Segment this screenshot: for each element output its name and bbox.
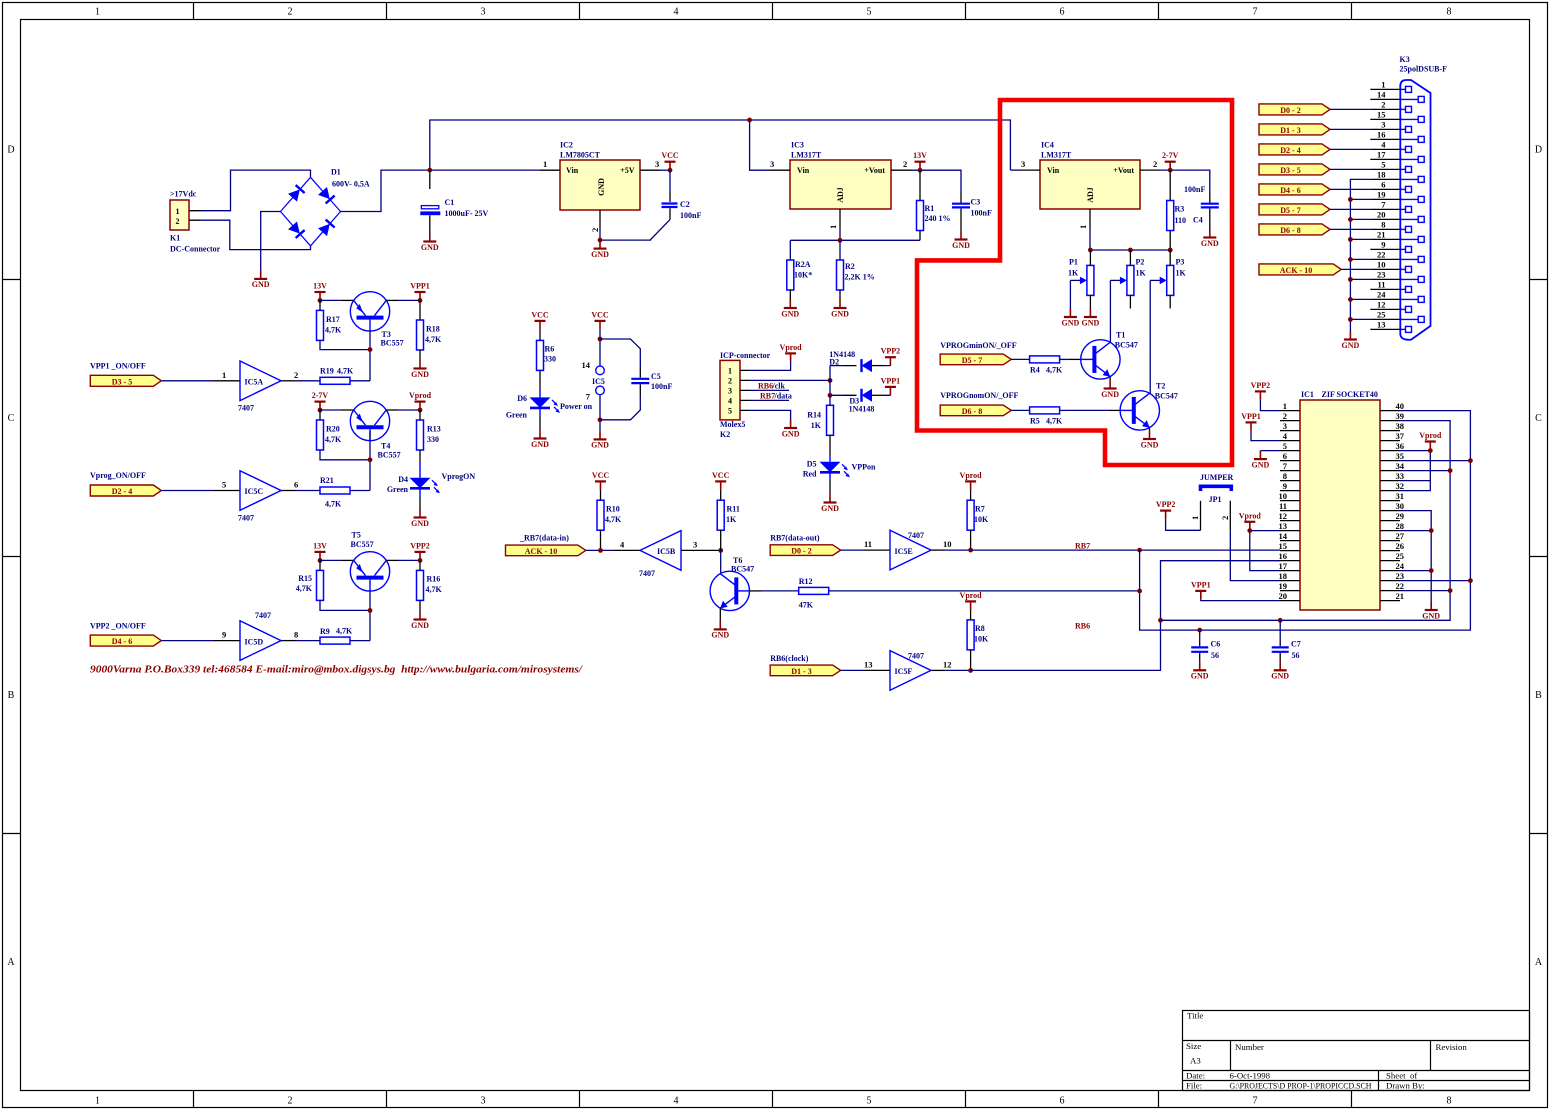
svg-text:7407: 7407: [238, 404, 254, 413]
resistor R6: [537, 329, 557, 390]
svg-text:C: C: [8, 413, 15, 424]
svg-text:20: 20: [1377, 210, 1386, 220]
wire 13V to T5 emitter: [320, 559, 342, 561]
svg-text:DC-Connector: DC-Connector: [170, 245, 221, 254]
ground T6: [711, 621, 729, 640]
svg-text:ADJ: ADJ: [836, 187, 845, 203]
svg-text:2: 2: [728, 376, 732, 385]
svg-text:VPP1 _ON/OFF: VPP1 _ON/OFF: [90, 361, 146, 370]
wire ACK flag to IC5B: [586, 549, 614, 551]
svg-text:27: 27: [1396, 531, 1405, 541]
svg-text:1: 1: [1078, 225, 1088, 229]
svg-text:4,7K: 4,7K: [325, 326, 342, 335]
wire IC4 in: [1010, 169, 1020, 171]
svg-text:IC1: IC1: [1301, 390, 1314, 399]
wire T3 base node: [320, 331, 370, 381]
junction D2 node: [828, 378, 833, 383]
svg-text:R18: R18: [426, 325, 440, 334]
svg-text:5: 5: [867, 7, 872, 18]
svg-text:D: D: [1535, 145, 1542, 156]
svg-text:D2 - 4: D2 - 4: [1280, 146, 1300, 155]
svg-text:2-7V: 2-7V: [312, 391, 329, 400]
wire flag D0-2 to IC5E: [841, 549, 864, 551]
svg-text:D2 - 4: D2 - 4: [112, 487, 132, 496]
SECTION A: power input: [170, 118, 1010, 290]
svg-text:5: 5: [1381, 160, 1385, 170]
junction gnd bus pin21: [1348, 237, 1353, 242]
svg-text:10K: 10K: [974, 515, 989, 524]
junction pin24 gnd: [1429, 568, 1434, 573]
svg-text:56: 56: [1292, 651, 1300, 660]
svg-text:A: A: [1535, 957, 1543, 968]
svg-text:Number: Number: [1235, 1042, 1264, 1052]
junction pin35 RB7: [1468, 458, 1473, 463]
connector K1 DC-Connector: [170, 190, 221, 254]
svg-text:4,7K: 4,7K: [325, 500, 342, 509]
wire VPP2 to JP1 pin1: [1166, 519, 1201, 530]
svg-text:4,7K: 4,7K: [605, 515, 622, 524]
svg-text:VPP1: VPP1: [881, 376, 901, 385]
svg-text:20: 20: [1279, 591, 1288, 601]
wire ACK-10 to pin10: [1341, 268, 1370, 270]
svg-text:1: 1: [176, 207, 180, 216]
power 2-7V T4: [312, 391, 329, 410]
junction pin23 RB7: [1468, 578, 1473, 583]
svg-text:15: 15: [1279, 541, 1288, 551]
svg-text:12: 12: [1279, 511, 1288, 521]
svg-text:21: 21: [1377, 230, 1386, 240]
svg-text:8: 8: [1447, 1096, 1452, 1107]
svg-text:3: 3: [1021, 159, 1025, 169]
svg-text:R2: R2: [845, 262, 855, 271]
svg-text:4: 4: [674, 7, 679, 18]
junction VPP2 R16: [418, 558, 423, 563]
svg-text:Molex5: Molex5: [720, 420, 745, 429]
transistor T5 BC557: [350, 531, 389, 592]
junction pin22 RB6: [1448, 588, 1453, 593]
node flag D5-7 mid: [940, 354, 1011, 365]
wire pin22 to RB6 leg: [1400, 590, 1450, 592]
wire flag D4-6 to IC5D: [161, 640, 214, 642]
svg-text:K2: K2: [720, 430, 730, 439]
svg-text:ADJ: ADJ: [1086, 187, 1095, 203]
resistor R14: [807, 395, 833, 455]
resistor R21: [320, 476, 350, 509]
wire T1 emitter to gnd: [1109, 377, 1111, 380]
junction pin28 gnd: [1429, 528, 1434, 533]
svg-text:9: 9: [222, 630, 226, 640]
svg-text:R8: R8: [975, 624, 985, 633]
svg-text:8: 8: [1447, 7, 1452, 18]
svg-text:18: 18: [1279, 571, 1288, 581]
svg-text:Vprod: Vprod: [1419, 431, 1442, 440]
svg-text:Vin: Vin: [1047, 166, 1060, 175]
svg-text:R5: R5: [1030, 417, 1040, 426]
svg-text:13: 13: [1279, 521, 1288, 531]
svg-text:Vprod: Vprod: [960, 471, 983, 480]
svg-text:R14: R14: [807, 411, 821, 420]
svg-text:26: 26: [1396, 541, 1405, 551]
ground K2: [782, 420, 800, 439]
capacitor C4: [1184, 185, 1219, 229]
op-amp IC5E buffer 7407: [864, 530, 952, 570]
wire T6 emitter to gnd: [719, 608, 721, 621]
svg-text:13V: 13V: [913, 151, 927, 160]
SECTION D: buffers bottom: [506, 310, 1281, 690]
svg-text:File:: File:: [1186, 1080, 1202, 1090]
resistor R15: [296, 560, 324, 600]
svg-text:8: 8: [1283, 471, 1287, 481]
svg-text:RB7: RB7: [1075, 541, 1090, 550]
svg-text:D4 - 6: D4 - 6: [1280, 186, 1300, 195]
ground bridge: [252, 270, 270, 289]
svg-text:11: 11: [1377, 280, 1385, 290]
wire flag D2-4 to IC5C: [161, 490, 214, 492]
svg-text:25polDSUB-F: 25polDSUB-F: [1400, 65, 1448, 74]
svg-text:10: 10: [943, 539, 952, 549]
wire IC5D out: [280, 640, 296, 642]
power Vprod R7: [960, 471, 983, 490]
svg-text:4,7K: 4,7K: [336, 627, 353, 636]
svg-text:C3: C3: [971, 198, 981, 207]
wire R5 to T2 base: [1060, 409, 1110, 411]
svg-text:2-7V: 2-7V: [1162, 151, 1179, 160]
svg-text:C7: C7: [1291, 640, 1301, 649]
svg-text:100nF: 100nF: [680, 211, 701, 220]
power VPP2 JP1: [1156, 500, 1176, 519]
resistor R19: [320, 367, 354, 385]
op-amp IC4 LM317T regulator: [1020, 141, 1160, 230]
svg-text:100nF: 100nF: [971, 209, 992, 218]
svg-text:2,2K 1%: 2,2K 1%: [845, 273, 875, 282]
junction IC5 vcc: [598, 337, 603, 342]
svg-text:18: 18: [1377, 170, 1386, 180]
SECTION C: transistor switches: [90, 282, 475, 661]
junction Vprod pin36: [1428, 448, 1433, 453]
op-amp IC5D buffer 7407: [222, 611, 298, 660]
svg-text:+Vout: +Vout: [1113, 166, 1134, 175]
svg-text:D1: D1: [331, 168, 341, 177]
wire IC3 out node: [911, 170, 961, 192]
svg-text:1: 1: [1190, 516, 1200, 520]
wire IC2 pin2: [599, 228, 601, 240]
SECTION G: ZIF: [1137, 381, 1473, 681]
svg-text:2: 2: [176, 217, 180, 226]
svg-text:VPP2: VPP2: [410, 541, 430, 550]
connector K2 ICP Molex5: [720, 351, 771, 439]
svg-text:BC557: BC557: [351, 540, 374, 549]
junction 13V R15: [318, 558, 323, 563]
ground D4: [411, 509, 429, 528]
junction IC4 out: [1168, 168, 1173, 173]
resistor R17: [317, 300, 343, 340]
svg-text:2: 2: [1153, 159, 1157, 169]
svg-text:IC5F: IC5F: [895, 667, 913, 676]
svg-text:D6 - 8: D6 - 8: [962, 407, 982, 416]
svg-text:13: 13: [864, 660, 873, 670]
resistor R1: [917, 170, 951, 240]
svg-text:Green: Green: [387, 485, 409, 494]
junction IC2 gnd: [598, 238, 603, 243]
svg-text:7407: 7407: [255, 611, 271, 620]
junction T3 base: [368, 347, 373, 352]
svg-text:25: 25: [1396, 551, 1405, 561]
wire VCC to IC5 pin14: [599, 329, 601, 366]
svg-text:2: 2: [1220, 516, 1230, 520]
svg-text:7407: 7407: [639, 569, 655, 578]
power Vprod T4: [409, 391, 432, 410]
junction IC3 rail: [747, 118, 752, 123]
svg-text:RB7: RB7: [760, 392, 775, 401]
resistor R20: [317, 410, 343, 450]
junction C6: [1197, 628, 1202, 633]
svg-text:A: A: [7, 957, 15, 968]
node flag ACK-10: [1259, 264, 1341, 275]
power Vprod pin36: [1419, 431, 1442, 450]
svg-text:Title: Title: [1187, 1011, 1203, 1021]
svg-text:7: 7: [1253, 7, 1258, 18]
svg-text:24: 24: [1377, 290, 1386, 300]
svg-text:23: 23: [1377, 270, 1386, 280]
wire T5 collector to VPP2: [386, 559, 398, 561]
svg-text:VprogON: VprogON: [442, 472, 476, 481]
svg-text:1: 1: [1381, 80, 1385, 90]
chip IC5 power pins 14 7: [582, 360, 605, 402]
svg-text:19: 19: [1377, 190, 1386, 200]
svg-text:10: 10: [1279, 491, 1288, 501]
svg-text:40: 40: [1396, 401, 1405, 411]
svg-text:22: 22: [1377, 250, 1386, 260]
SECTION B: regulators: [770, 141, 1219, 319]
svg-text:1: 1: [828, 225, 838, 229]
power VPP1 pin4: [1241, 412, 1261, 431]
svg-text:R6: R6: [545, 345, 555, 354]
resistor R13: [417, 410, 441, 462]
svg-text:10: 10: [1377, 260, 1386, 270]
capacitor C6: [1191, 630, 1220, 662]
capacitor C5: [600, 339, 672, 420]
svg-text:8: 8: [1381, 220, 1385, 230]
svg-text:VCC: VCC: [661, 151, 679, 160]
power 13V IC3: [913, 151, 927, 170]
junction gnd bus pin24: [1348, 297, 1353, 302]
junction gnd bus pin25: [1348, 317, 1353, 322]
svg-text:1K: 1K: [1068, 268, 1079, 277]
ground K3: [1342, 331, 1360, 350]
svg-text:ACK - 10: ACK - 10: [1280, 266, 1312, 275]
power 2-7V IC4: [1162, 151, 1179, 170]
svg-text:IC5B: IC5B: [657, 547, 676, 556]
wire P2 wiper to T1 collector: [1109, 280, 1111, 342]
resistor R11: [717, 490, 740, 551]
svg-text:C4: C4: [1193, 216, 1203, 225]
svg-text:C5: C5: [651, 372, 661, 381]
ground C3: [952, 231, 970, 250]
wire K3 gnd bus: [1350, 179, 1370, 331]
svg-text:1N4148: 1N4148: [849, 404, 875, 413]
svg-text:2: 2: [903, 159, 907, 169]
svg-text:IC5: IC5: [592, 377, 605, 386]
svg-text:Green: Green: [506, 411, 528, 420]
svg-text:6: 6: [1381, 180, 1385, 190]
svg-text:BC547: BC547: [1115, 341, 1138, 350]
svg-text:T2: T2: [1156, 382, 1165, 391]
power VPP2 T5: [410, 541, 430, 560]
wire pin5 to gnd: [1260, 450, 1280, 452]
IC1 left pin stubs 1-20: [1280, 411, 1300, 601]
svg-text:_RB7(data-in): _RB7(data-in): [519, 533, 569, 542]
svg-text:9: 9: [1381, 240, 1385, 250]
svg-text:2: 2: [288, 7, 293, 18]
wire RB7 to pin15: [1140, 549, 1280, 551]
svg-text:Vin: Vin: [566, 166, 579, 175]
TITLE BLOCK: [1183, 1011, 1530, 1091]
svg-text:1: 1: [543, 159, 547, 169]
node flag ACK-10 left: [506, 545, 586, 556]
op-amp IC3 LM317T regulator: [770, 141, 911, 230]
junction IC4 adj P2: [1128, 248, 1133, 253]
svg-text:IC5A: IC5A: [245, 378, 264, 387]
svg-text:BC547: BC547: [731, 565, 754, 574]
svg-text:15: 15: [1377, 110, 1386, 120]
svg-text:12: 12: [943, 660, 952, 670]
svg-text:33: 33: [1396, 471, 1405, 481]
svg-text:5: 5: [728, 406, 732, 415]
svg-text:/data: /data: [774, 392, 792, 401]
wire R4 to T1 base: [1060, 358, 1070, 360]
junction gnd bus pin20: [1348, 217, 1353, 222]
wire IC4 out node: [1160, 170, 1210, 192]
svg-text:1000uF- 25V: 1000uF- 25V: [445, 209, 489, 218]
junction R10 ACK: [598, 548, 603, 553]
svg-text:14: 14: [1377, 90, 1386, 100]
wire flag D6-8 to R5: [1011, 409, 1029, 411]
transistor T2 BC547: [1120, 382, 1178, 431]
wire 2-7V to T4 emitter: [320, 409, 342, 411]
power Vprod R8: [960, 591, 983, 610]
node flag D2-4: [1259, 144, 1330, 155]
svg-text:4,7K: 4,7K: [426, 585, 443, 594]
op-amp IC5A buffer 7407: [222, 361, 298, 413]
svg-text:13V: 13V: [313, 541, 327, 550]
wire RB7 down leg: [1140, 411, 1471, 630]
transistor T6 BC547: [710, 556, 754, 611]
svg-text:R3: R3: [1175, 205, 1185, 214]
wire bridge minus to ground: [261, 212, 281, 271]
ground D6: [531, 430, 549, 449]
node flag D1-3: [1259, 124, 1330, 135]
svg-text:RB6(clock): RB6(clock): [770, 654, 809, 663]
svg-text:K3: K3: [1400, 55, 1410, 64]
svg-text:6: 6: [1283, 451, 1287, 461]
ground C7: [1271, 662, 1289, 681]
junction T4 base: [368, 457, 373, 462]
svg-text:+Vout: +Vout: [864, 166, 885, 175]
svg-text:5: 5: [1283, 441, 1287, 451]
svg-text:D1 - 3: D1 - 3: [1280, 126, 1300, 135]
wire JP1 pin2 to IC1 pin18: [1230, 530, 1280, 580]
wire flag D1-3 to IC5F: [841, 669, 864, 671]
svg-text:T4: T4: [381, 442, 390, 451]
svg-text:2: 2: [288, 1096, 293, 1107]
svg-text:30: 30: [1396, 501, 1405, 511]
ground D5: [821, 494, 839, 513]
junction pin34 RB6: [1448, 468, 1453, 473]
svg-text:C: C: [1535, 413, 1542, 424]
svg-text:LM317T: LM317T: [1041, 151, 1072, 160]
wire D0-2 to pin2: [1330, 108, 1370, 110]
svg-text:4,7K: 4,7K: [1046, 417, 1063, 426]
svg-text:1K: 1K: [1136, 268, 1147, 277]
K3 pin contacts right column: [1400, 96, 1424, 322]
wire IC2 out to VCC: [660, 169, 670, 171]
svg-text:IC5E: IC5E: [895, 547, 913, 556]
svg-text:1: 1: [1283, 401, 1287, 411]
node flag D0-2: [1259, 104, 1330, 115]
chip IC1 ZIF SOCKET40: [1300, 390, 1380, 610]
svg-text:1: 1: [95, 7, 100, 18]
svg-text:D5: D5: [807, 460, 817, 469]
svg-text:B: B: [8, 690, 15, 701]
ground pin5: [1252, 451, 1270, 470]
junction 13V R17: [318, 298, 323, 303]
svg-text:1: 1: [222, 370, 226, 380]
svg-text:JUMPER: JUMPER: [1200, 473, 1234, 482]
svg-text:3: 3: [770, 159, 774, 169]
svg-text:6: 6: [1060, 1096, 1065, 1107]
svg-text:VCC: VCC: [712, 471, 730, 480]
svg-text:IC3: IC3: [791, 141, 804, 150]
wire D3-5 to pin5: [1330, 168, 1370, 170]
svg-text:330: 330: [544, 355, 556, 364]
svg-text:GND: GND: [597, 178, 606, 196]
transistor T3 BC557: [350, 292, 403, 348]
svg-text:16: 16: [1377, 130, 1386, 140]
svg-text:VCC: VCC: [531, 310, 549, 319]
svg-text:600V- 0,5A: 600V- 0,5A: [332, 180, 370, 189]
wire C2 to IC2 gnd: [600, 220, 670, 241]
svg-text:D0 - 2: D0 - 2: [1280, 106, 1300, 115]
svg-text:VPROGnomON/_OFF: VPROGnomON/_OFF: [940, 391, 1018, 400]
svg-text:7407: 7407: [238, 513, 254, 522]
svg-text:P3: P3: [1176, 257, 1185, 266]
svg-text:5: 5: [867, 1096, 872, 1107]
svg-text:D1 - 3: D1 - 3: [791, 667, 811, 676]
junction RB7 vertical: [1137, 548, 1142, 553]
svg-text:R10: R10: [606, 505, 620, 514]
svg-text:34: 34: [1396, 461, 1405, 471]
node flag D1-3 left: [770, 665, 840, 676]
ground IC5: [591, 431, 609, 450]
svg-text:VCC: VCC: [592, 471, 610, 480]
svg-text:4,7K: 4,7K: [296, 584, 313, 593]
power VCC IC5: [591, 310, 609, 329]
IC1 left pin numbers: [1279, 401, 1288, 601]
resistor R12: [799, 577, 829, 610]
svg-text:3: 3: [481, 1096, 486, 1107]
svg-text:T5: T5: [352, 531, 361, 540]
junction C1 rail: [427, 168, 432, 173]
svg-text:BC557: BC557: [378, 451, 401, 460]
ground R16: [411, 611, 429, 630]
node flag D2-4: [90, 485, 161, 496]
ground C6: [1191, 662, 1209, 681]
op-amp IC5F buffer 7407: [864, 651, 952, 691]
svg-text:VPP2: VPP2: [1251, 381, 1271, 390]
svg-text:VPP2 _ON/OFF: VPP2 _ON/OFF: [90, 622, 146, 631]
svg-text:ZIF SOCKET40: ZIF SOCKET40: [1322, 390, 1378, 399]
svg-text:R9: R9: [320, 627, 330, 636]
